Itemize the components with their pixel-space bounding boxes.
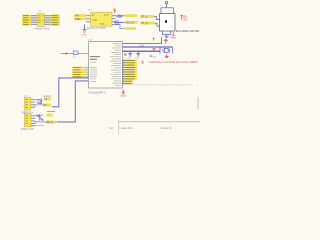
capacitor C5 (blue) on xtal2 line	[129, 51, 132, 57]
net label row2	[125, 21, 139, 24]
pins right of J2	[31, 99, 35, 108]
wire pin4 stub	[35, 125, 44, 127]
crystal Y1 body (blue)	[163, 48, 170, 52]
regulator U3 body	[91, 12, 113, 26]
net name text above label	[44, 96, 52, 97]
left pins of J1	[31, 15, 37, 25]
input net labels	[74, 14, 86, 21]
wire gnd net to oscillator area	[123, 37, 162, 43]
power flag (red) below oscillator	[171, 32, 176, 39]
wire row2	[116, 21, 125, 23]
net label +5V row1	[125, 14, 138, 17]
faint wire to right	[125, 84, 194, 86]
net label group1 A	[44, 98, 52, 102]
net labels right of J1	[51, 14, 60, 25]
sheet background	[0, 0, 200, 134]
wire label row1 to oscillator pin	[154, 16, 159, 19]
net name text between groups	[47, 111, 55, 112]
svg-text:U?: U?	[89, 38, 93, 42]
net labels left of J1	[22, 15, 31, 26]
pin names left column (inside body)	[90, 56, 100, 82]
power port +5V (red) right of oscillator	[181, 16, 188, 22]
svg-text:PWR-CON: PWR-CON	[21, 127, 34, 131]
wire xtal2	[123, 50, 161, 52]
svg-text:* install only if no internal: * install only if no internal osc is use…	[148, 61, 199, 64]
svg-text:XT_V: XT_V	[141, 16, 148, 19]
ground (red) below U2	[121, 90, 126, 98]
ground (red) below crystal	[165, 54, 169, 58]
wire bus A (purple) MCU to group1	[52, 78, 89, 107]
diode D1 (blue) on reset line	[68, 51, 88, 59]
pins right of J3	[31, 115, 35, 126]
red tick near wire turn	[153, 38, 155, 40]
input pins	[86, 15, 90, 22]
connector J3 body	[24, 114, 31, 127]
ground (blue) below oscillator	[164, 36, 168, 37]
svg-text:| Sheet 1/1: | Sheet 1/1	[160, 127, 173, 130]
wires below oscillator	[163, 31, 171, 35]
right edge scroll smudge	[197, 97, 199, 109]
wire to transistor	[35, 99, 38, 101]
svg-text:OUT: OUT	[104, 15, 109, 17]
capacitor C2 (blue glyph)	[114, 20, 123, 24]
off-sheet arrow (red) reset	[61, 52, 68, 54]
svg-text:GND: GND	[92, 20, 97, 22]
red glyph left of note	[142, 60, 144, 63]
oscillator X1 body	[160, 14, 175, 31]
transistor Q1 (blue)	[37, 99, 42, 105]
wire xtal1	[123, 46, 173, 48]
svg-text:RX: RX	[43, 105, 47, 107]
wire label row2 to oscillator pin	[155, 23, 160, 26]
svg-text:XT_O: XT_O	[141, 22, 148, 25]
svg-text:GND: GND	[171, 38, 176, 40]
net label to osc row2	[140, 22, 155, 26]
pins for left labels	[86, 67, 89, 77]
pin names right column (inside body)	[110, 43, 121, 86]
wire stub down	[166, 35, 168, 37]
net label texts (left of MCU)	[73, 67, 81, 77]
power port (red) left of crystal	[152, 49, 155, 52]
MCU U2 body	[89, 42, 123, 88]
power port VCC (blue)	[165, 1, 167, 7]
wire label to ground	[84, 24, 86, 29]
svg-text:GND: GND	[121, 96, 126, 98]
title block left line	[118, 120, 120, 134]
wire row3	[116, 25, 125, 29]
svg-text:J?: J?	[38, 10, 42, 14]
no-ERC mark (red) on pin	[124, 53, 126, 55]
ground (blue) bottom left of crystal	[150, 55, 153, 57]
net label group2 top	[46, 114, 53, 117]
ground (red) below input labels	[82, 30, 86, 33]
svg-text:ECS-100AX-100-TR3: ECS-100AX-100-TR3	[176, 30, 200, 33]
net label row3	[125, 27, 137, 30]
wire bus B (purple) MCU to group2	[57, 81, 89, 122]
output pins of U3	[112, 15, 116, 25]
wire pins to label B	[35, 104, 43, 106]
svg-text:| Date: 2021: | Date: 2021	[120, 127, 134, 130]
connector J1 body	[37, 14, 44, 27]
svg-text:GND: GND	[75, 18, 81, 21]
power flag +5V (red) above output	[113, 8, 116, 14]
svg-text:U?: U?	[88, 8, 92, 12]
svg-text:GND: GND	[82, 35, 87, 37]
right pins of J1	[45, 15, 51, 25]
svg-text:NCP1117ST50: NCP1117ST50	[87, 26, 106, 30]
net labels left of MCU	[72, 67, 86, 78]
net label texts (right of MCU)	[125, 60, 135, 84]
transistor Q2 (blue)	[35, 115, 43, 121]
capacitor C1 (blue glyph)	[116, 15, 123, 18]
wire regulator out row1	[116, 15, 125, 17]
svg-text:Rev: Rev	[110, 127, 115, 130]
svg-text:Header 5X2: Header 5X2	[35, 26, 50, 30]
title block top line	[119, 121, 201, 123]
wire VCC tee to oscillator top pins	[161, 8, 174, 14]
power port (red) above crystal	[164, 40, 168, 44]
net label group1 B	[43, 104, 52, 108]
svg-text:VCC_5V: VCC_5V	[125, 21, 135, 24]
svg-text:XTAL: XTAL	[139, 44, 145, 47]
net label group2 C	[45, 121, 56, 125]
svg-text:OSC: OSC	[183, 18, 188, 21]
pin stubs + net labels right of MCU	[123, 60, 138, 85]
svg-text:LED_R: LED_R	[46, 122, 54, 124]
connector J2 body	[24, 97, 30, 110]
svg-text:ATmega328P-A: ATmega328P-A	[88, 92, 106, 95]
svg-text:TX: TX	[44, 99, 47, 101]
capacitor C6 (blue) on xtal2 line	[137, 51, 140, 57]
wire pin to label C	[35, 121, 45, 123]
crystal Y1 frame wires	[160, 47, 173, 54]
svg-text:IN: IN	[92, 15, 95, 17]
net label VCC to osc row1	[140, 15, 154, 19]
